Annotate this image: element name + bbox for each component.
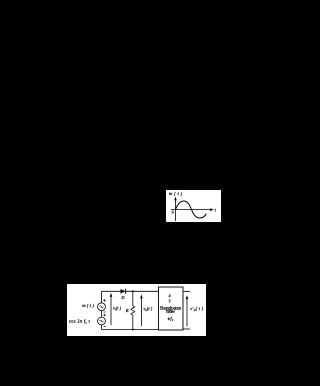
resistor R zigzag bbox=[131, 306, 135, 315]
circuit figure box bbox=[67, 284, 206, 336]
svg-text:filter: filter bbox=[166, 309, 175, 314]
wire: bottom rail bbox=[102, 329, 159, 331]
svg-text:±fc: ±fc bbox=[168, 316, 174, 322]
source V1 m(t) bbox=[98, 303, 106, 311]
svg-text:2: 2 bbox=[169, 298, 171, 303]
svg-text:D: D bbox=[120, 295, 125, 300]
horizontal axis t with right arrow bbox=[171, 209, 212, 211]
wire: top rail from source to diode bbox=[102, 290, 121, 292]
node junction top bbox=[132, 290, 134, 292]
svg-text:cos 2π fc t: cos 2π fc t bbox=[69, 319, 91, 325]
wire: output stub bottom bbox=[183, 328, 190, 330]
svg-text:R: R bbox=[125, 308, 129, 313]
source V2 carrier bbox=[98, 317, 106, 325]
svg-text:v′o( t ): v′o( t ) bbox=[190, 306, 203, 312]
vertical axis with up arrow bbox=[175, 199, 177, 221]
voltage arrow v_o(t) bbox=[140, 297, 142, 326]
svg-text:m ( t ): m ( t ) bbox=[82, 303, 94, 308]
resistor R leads bbox=[132, 291, 134, 306]
svg-text:vo(t ): vo(t ) bbox=[143, 306, 152, 312]
voltage arrow v_i(t) bbox=[110, 296, 112, 326]
svg-text:t: t bbox=[215, 207, 217, 212]
svg-text:m ( t ): m ( t ) bbox=[169, 191, 183, 196]
bandpass filter box U1 bbox=[159, 287, 184, 330]
voltage arrow v_o'(t) output bbox=[186, 298, 188, 327]
wire: output stub top bbox=[183, 290, 190, 292]
polarity marks source V1 bbox=[103, 299, 105, 301]
polarity marks source V2 bbox=[103, 314, 105, 316]
svg-text:0: 0 bbox=[172, 209, 174, 214]
waveform figure box m(t) bbox=[166, 190, 221, 222]
node junction bottom bbox=[132, 329, 134, 331]
wire: left branch vertical bbox=[101, 291, 103, 303]
sine wave curve bbox=[176, 201, 207, 218]
svg-text:vi(t ): vi(t ) bbox=[113, 306, 122, 312]
wire: top rail from diode to filter bbox=[126, 290, 159, 292]
diode D bbox=[121, 289, 126, 294]
